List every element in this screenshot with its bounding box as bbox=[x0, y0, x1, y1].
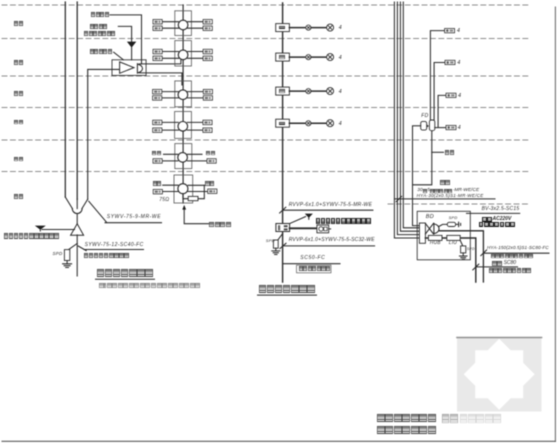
title intercom system bbox=[259, 285, 316, 293]
wire FD feed down to cabinet bbox=[413, 126, 420, 226]
wire data riser 3 bbox=[400, 2, 419, 231]
page border bottom bbox=[2, 440, 555, 442]
note SPD selection bbox=[99, 283, 201, 288]
wire F6b bbox=[311, 27, 327, 29]
tap splitter F2 bbox=[178, 153, 188, 163]
intercom main station bbox=[276, 224, 290, 232]
cable label SYWV-75-12 bbox=[85, 243, 144, 248]
socket F5 bbox=[306, 55, 311, 60]
wire tap column bbox=[182, 5, 184, 203]
label 75 ohm bbox=[159, 198, 169, 203]
leader fiber cable with tick bbox=[473, 264, 518, 270]
label 4 F3 mid bbox=[339, 122, 342, 128]
leader riser cable labels bbox=[394, 196, 495, 201]
wires F2 outlets bbox=[162, 154, 207, 161]
wire CATV riser right bbox=[76, 2, 78, 199]
line amplifier box U1 bbox=[112, 60, 146, 76]
power feed arrow symbol bbox=[35, 226, 46, 230]
junction box F3 bbox=[276, 119, 290, 127]
wire riser to F4 bbox=[438, 95, 446, 127]
data outlet F5 bbox=[445, 60, 455, 64]
indoor station F6 bbox=[327, 24, 334, 31]
data outlet F4 bbox=[446, 93, 456, 97]
cable label RVVP MR bbox=[289, 203, 373, 208]
page border right bbox=[554, 7, 556, 442]
indoor station F4 bbox=[327, 88, 334, 95]
wire splitter out up bbox=[139, 60, 181, 64]
SPD intercom bbox=[273, 240, 278, 248]
data outlet F6 bbox=[445, 29, 455, 33]
wires F4 outlets bbox=[162, 92, 204, 98]
watermark logo square bbox=[457, 337, 542, 411]
wire power to amplifier bbox=[118, 26, 131, 41]
wires F1 outlets bbox=[162, 185, 208, 191]
floor label 5F bbox=[14, 60, 23, 65]
floor label 6F bbox=[14, 21, 23, 26]
tv outlet F4-1 bbox=[153, 89, 162, 94]
wire F5b bbox=[311, 56, 327, 58]
label 4 F6 right bbox=[457, 29, 460, 35]
label power from emergency panel mid bbox=[316, 218, 372, 223]
splitter D2 bbox=[434, 223, 439, 234]
sheet title intercom faded bbox=[442, 414, 459, 423]
tv outlet F5-1 bbox=[153, 49, 162, 54]
tv outlet F3-4 bbox=[203, 128, 212, 132]
junction box label F6 bbox=[279, 26, 285, 29]
wire intercom riser bbox=[282, 3, 284, 282]
label 4-way tap bbox=[209, 222, 231, 228]
wire to SPD cabinet bottom bbox=[460, 240, 463, 246]
funnel riser merge bbox=[65, 197, 87, 209]
tv outlet F2-2 bbox=[207, 159, 216, 164]
data outlet F3 bbox=[446, 125, 456, 129]
wire main station to door unit bbox=[290, 227, 317, 229]
wire CATV riser left bbox=[64, 2, 66, 197]
wire reserved stub F2 bbox=[432, 151, 444, 153]
reserved label F2 left bbox=[152, 151, 161, 156]
label AC220V bbox=[482, 217, 511, 222]
wire 75ohm loop bbox=[183, 185, 204, 198]
wire splitter output cable bbox=[439, 231, 483, 282]
ground cabinet bbox=[459, 253, 467, 260]
wire F6 bbox=[289, 27, 305, 29]
tv outlet F6-3 bbox=[203, 20, 212, 25]
tap splitter F6 bbox=[178, 20, 188, 30]
power feed arrow intercom bbox=[305, 214, 313, 218]
indoor station F5 bbox=[327, 54, 334, 61]
floor line ground right bbox=[388, 203, 530, 205]
leader SYWV-75-12 cable with tick bbox=[78, 246, 143, 251]
tap splitter F5 bbox=[178, 50, 188, 60]
wire funnel to amplifier bbox=[76, 214, 78, 224]
tap splitter F4 bbox=[178, 90, 188, 100]
tap unit F6 box bbox=[175, 11, 192, 36]
amplifier A1 bbox=[71, 224, 84, 235]
wire data riser 4 bbox=[403, 2, 419, 228]
junction box F6 bbox=[276, 24, 290, 32]
label to property company bbox=[299, 266, 331, 271]
label from machine room 2 bbox=[491, 254, 533, 259]
label 4 F4 mid bbox=[339, 90, 342, 96]
tv outlet F4-3 bbox=[203, 89, 212, 94]
wire sub riser to F6 bbox=[430, 31, 444, 120]
leader 4-way tap label arrow bbox=[184, 209, 208, 223]
label nearby power source bbox=[479, 222, 516, 227]
tv outlet F3-1 bbox=[153, 120, 162, 125]
label 4 F5 right bbox=[457, 61, 460, 67]
tv outlet F5-2 bbox=[153, 56, 162, 61]
floor label 3F bbox=[14, 120, 23, 125]
cable label RVVP SC32 bbox=[289, 238, 375, 243]
wire data riser 1 bbox=[394, 2, 419, 238]
wire F3b bbox=[311, 122, 327, 124]
label HUB bbox=[430, 242, 441, 247]
resistor 75ohm terminator bbox=[188, 196, 198, 200]
junction box label F4 bbox=[279, 89, 285, 92]
wire SPD branch bbox=[69, 244, 78, 250]
label fiber SC80 bbox=[492, 261, 516, 266]
socket F3 bbox=[306, 121, 311, 126]
tap unit F4 box bbox=[175, 81, 192, 107]
LIU bbox=[447, 235, 460, 240]
junction box F5 bbox=[276, 53, 290, 61]
tv outlet F3-2 bbox=[153, 128, 162, 132]
wires F3 outlets bbox=[162, 122, 203, 130]
junction box F4 bbox=[276, 87, 290, 95]
wire amplifier down to SPD/cable bbox=[76, 235, 78, 276]
tv outlet F1-1 bbox=[153, 189, 162, 194]
wire F4 bbox=[289, 90, 305, 92]
wires F6 outlets bbox=[162, 22, 203, 29]
label from machine room 3 bbox=[489, 268, 531, 273]
wire riser to F5 bbox=[434, 63, 445, 120]
BD cabinet box bbox=[417, 211, 470, 259]
title CATV system bbox=[97, 269, 154, 277]
floor label 1F bbox=[14, 194, 23, 199]
tap unit F5 box bbox=[175, 41, 192, 66]
tv outlet F6-2 bbox=[153, 26, 162, 31]
cable label 30 pair cat5 bbox=[417, 189, 479, 194]
tap unit F2 box bbox=[175, 144, 192, 169]
label FD bbox=[421, 114, 428, 119]
floor label 2F bbox=[14, 157, 23, 162]
label 4 F6 mid bbox=[339, 26, 342, 32]
tv outlet F5-3 bbox=[203, 49, 212, 54]
tv outlet F4-4 bbox=[203, 96, 212, 101]
ground bbox=[63, 261, 72, 268]
splitter D1 two-way bbox=[137, 64, 142, 73]
door station unit bbox=[317, 225, 329, 233]
tap splitter F3 bbox=[178, 122, 188, 132]
cable label HYA-30 bbox=[417, 194, 484, 199]
wire power to main station bbox=[290, 217, 306, 224]
tv outlet F3-3 bbox=[203, 120, 212, 125]
terminal strip bbox=[419, 223, 425, 243]
frame property company label bbox=[297, 265, 332, 273]
socket F4 bbox=[306, 89, 311, 94]
wires F5 outlets bbox=[162, 52, 203, 59]
indoor station F3 bbox=[327, 120, 334, 127]
label from machine room bbox=[84, 253, 130, 258]
wire data riser 2 bbox=[397, 2, 419, 235]
wire F4b bbox=[311, 90, 327, 92]
label 2-way splitter bbox=[91, 12, 109, 17]
leader line amplifier label bbox=[114, 52, 124, 60]
floor label 4F bbox=[14, 91, 23, 96]
diode power arrow bbox=[127, 42, 136, 48]
leader SC50 conduit bbox=[283, 263, 340, 265]
socket F6 bbox=[306, 25, 311, 30]
floor line 6F top bbox=[2, 4, 530, 6]
tv outlet F5-4 bbox=[203, 56, 212, 61]
wire diode to amp box bbox=[131, 48, 133, 60]
wire splitter out down bbox=[139, 73, 182, 85]
reserved label right F2 bbox=[445, 150, 455, 155]
leader SYWV-75-9 cable bbox=[89, 201, 162, 223]
wire BV power line bbox=[467, 212, 520, 214]
amplifier triangle U1 bbox=[120, 62, 134, 73]
cable label HYA-150 bbox=[487, 246, 549, 251]
leader 2-way splitter label bbox=[110, 15, 142, 64]
junction box label F5 bbox=[279, 55, 285, 58]
wire bus HUB LIU bbox=[425, 238, 475, 282]
label BD bbox=[426, 215, 434, 221]
reserved label F2 right bbox=[206, 151, 215, 156]
wire FD out bbox=[435, 127, 446, 129]
cable label SYWV-75-9 bbox=[107, 215, 161, 220]
label SPD cabinet top bbox=[449, 216, 458, 220]
reserved label right F1 bbox=[440, 180, 450, 185]
label power from emergency panel line1 bbox=[90, 24, 108, 29]
FD floor distributor bbox=[421, 120, 435, 131]
floor line 3F bbox=[2, 107, 530, 109]
label power from emergency panel bottom bbox=[4, 233, 60, 238]
cable label SC50 bbox=[300, 256, 325, 261]
wire to SPD top bbox=[439, 224, 459, 226]
termination bars bbox=[458, 222, 460, 226]
leader RVVP SC32 cable with tick bbox=[280, 243, 375, 248]
tap splitter F1 bbox=[178, 184, 188, 194]
floor line 5F bbox=[2, 38, 530, 40]
label line amplifier bbox=[90, 49, 113, 54]
HUB bbox=[428, 235, 442, 240]
tv outlet F6-4 bbox=[203, 26, 212, 31]
sheet title CATV bbox=[377, 414, 436, 423]
wire FD in bbox=[413, 125, 421, 127]
label 4 F3 right bbox=[458, 126, 461, 132]
wire amplifier feed bbox=[88, 69, 120, 199]
SPD cabinet top bbox=[447, 222, 455, 226]
label power from emergency panel line2 bbox=[84, 31, 116, 36]
leader HYA-150 cable with tick bbox=[481, 250, 549, 256]
wire sub riser lower bbox=[413, 131, 432, 185]
SPD cabinet bottom bbox=[461, 246, 466, 253]
label LIU bbox=[449, 242, 457, 247]
bowtie amplifier BD bbox=[425, 223, 433, 234]
floor line 1F bbox=[2, 171, 530, 173]
cable label BV power bbox=[482, 207, 520, 212]
SPD surge protector bbox=[64, 250, 69, 261]
title underline intercom bbox=[258, 294, 317, 296]
floor line 2F bbox=[2, 139, 530, 141]
leader RVVP riser cable with tick bbox=[280, 207, 373, 213]
reserved label F1 right bbox=[205, 181, 214, 186]
reserved label F1 left bbox=[153, 181, 162, 186]
title underline CATV bbox=[96, 278, 155, 280]
tv outlet F4-2 bbox=[153, 96, 162, 101]
label SPD cabinet bottom bbox=[467, 248, 475, 252]
label SPD left bbox=[53, 252, 63, 257]
sheet title cabling bbox=[377, 426, 436, 435]
wire F3 bbox=[289, 122, 305, 124]
wire F5 bbox=[289, 56, 305, 58]
wire power feed bbox=[40, 230, 74, 232]
ground intercom bbox=[272, 248, 280, 254]
tv outlet F6-1 bbox=[153, 20, 162, 25]
wire SPD branch intercom bbox=[278, 234, 283, 240]
label 4 F4 right bbox=[458, 94, 461, 100]
tv outlet F1-2 bbox=[208, 189, 217, 194]
label SPD mid bbox=[266, 239, 275, 243]
label 4 F5 mid bbox=[339, 56, 342, 62]
tap unit F1 box bbox=[174, 175, 193, 203]
floor line 4F bbox=[2, 75, 530, 77]
junction box label F3 bbox=[279, 122, 285, 125]
tv outlet F2-1 bbox=[153, 159, 162, 164]
tap unit F3 box bbox=[175, 112, 192, 139]
